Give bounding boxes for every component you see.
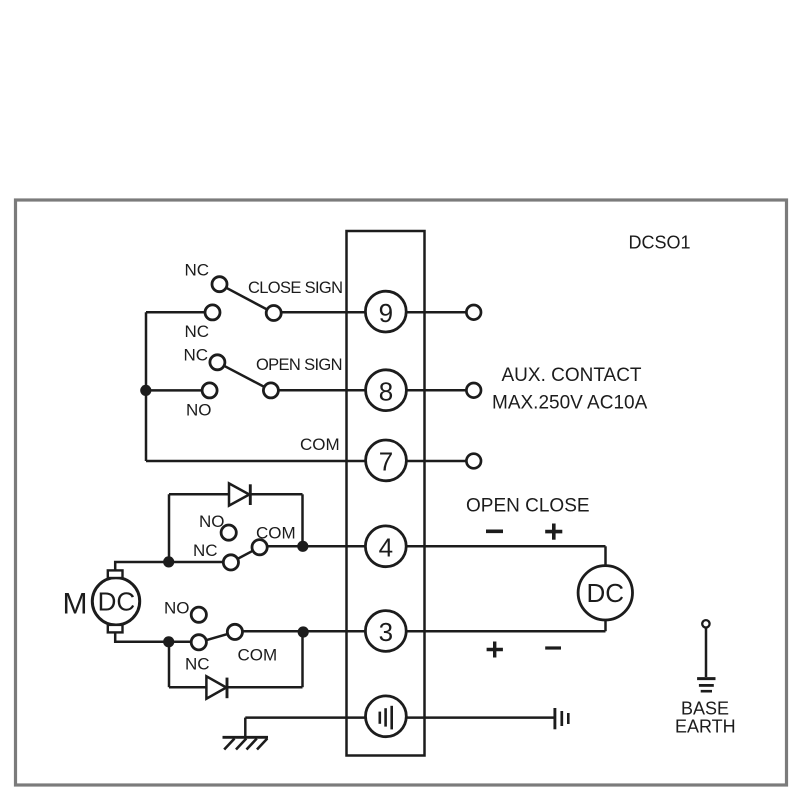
diode D1 (upper) [229,483,250,505]
contact: open-switch NO [202,383,217,398]
wire: lower switch to terminal 3 and DC source minus [235,630,606,633]
wire: DC source top lead [604,546,607,566]
wire: lower motor switch arm [199,632,235,642]
svg-text:MAX.250V AC10A: MAX.250V AC10A [492,393,648,414]
border frame [16,200,787,785]
contact: upper motor switch NO [221,525,236,540]
svg-text:AUX. CONTACT: AUX. CONTACT [502,365,642,386]
junction: lower branch / terminal 3 [298,626,309,637]
svg-text:4: 4 [379,532,393,562]
aux contact pin of 8 [466,383,481,398]
wire: COM to terminal 7 and aux contact [146,460,474,463]
wire: earth terminal lead [245,716,554,719]
junction: upper branch / terminal 4 [297,541,308,552]
junction: motor bottom / lower switch [163,636,174,647]
svg-text:CLOSE SIGN: CLOSE SIGN [248,279,342,297]
wire: motor bottom lead [115,632,199,641]
wire: upper diode branch left vertical [168,494,171,562]
wire: upper diode branch right vertical [301,494,304,546]
terminal 3 [365,611,406,652]
svg-text:NC: NC [185,655,210,674]
contact: lower motor switch NC [191,635,206,650]
wire: open-switch to terminal 8 and aux contact [271,389,474,392]
wire: lower diode branch bottom [169,686,303,689]
chassis ground [223,737,269,749]
svg-text:DCSO1: DCSO1 [629,233,691,253]
wire: lower diode branch left vertical [168,642,171,687]
svg-text:3: 3 [379,617,393,647]
polarity plus (close) [545,524,562,540]
wire: upper COM to terminal 4 and DC source plus [260,545,606,548]
svg-text:8: 8 [379,376,393,406]
svg-text:NO: NO [164,599,190,618]
contact: close-switch pivot [266,306,281,321]
svg-text:NC: NC [193,541,218,560]
aux contact pin of 9 [466,305,481,320]
contact: open-switch NC [210,355,225,370]
contact: upper motor switch COM [252,540,267,555]
svg-text:NC: NC [184,346,209,365]
terminal 7 [366,440,407,481]
svg-text:OPEN SIGN: OPEN SIGN [256,356,342,374]
wire: close-switch to terminal 9 and aux contact [274,311,474,314]
wire: DC source bottom lead [604,620,607,631]
wire: motor top lead [115,562,231,570]
svg-text:OPEN CLOSE: OPEN CLOSE [466,496,590,517]
polarity minus (lower) [545,646,561,649]
polarity plus (lower) [487,642,503,658]
svg-text:NC: NC [185,261,210,280]
terminal earth [366,696,407,737]
diode D2 (lower) [206,676,227,698]
contact: close-switch NC (left) [205,305,220,320]
svg-text:DC: DC [587,578,625,608]
contact: close-switch NC (upper) [212,277,227,292]
terminal 4 [365,526,406,567]
aux contact pin of 7 [466,454,481,469]
svg-text:EARTH: EARTH [675,717,736,737]
wire: close-switch NC stub [146,311,213,314]
svg-text:NO: NO [186,401,212,420]
svg-text:NC: NC [185,322,210,341]
wire: upper diode branch top [169,493,303,496]
DC source [578,566,632,620]
svg-text:DC: DC [98,587,136,617]
svg-text:9: 9 [379,298,393,328]
terminal 9 [365,291,406,332]
junction: motor top / upper switch [163,556,174,567]
svg-text:7: 7 [379,447,393,477]
junction: COM bus / NO stub [140,385,151,396]
polarity minus (open) [486,529,503,533]
svg-text:NO: NO [199,512,225,531]
wire: chassis ground drop [244,718,247,737]
earth bars at wire end [555,708,568,729]
wire: open sign switch arm [217,362,271,390]
svg-text:BASE: BASE [681,699,729,719]
wire: left COM vertical bus [145,312,148,461]
svg-text:COM: COM [256,524,296,543]
terminal block [347,231,425,756]
terminal 8 [366,370,407,411]
svg-text:COM: COM [300,435,340,454]
contact: upper motor switch NC [223,555,238,570]
wire: close sign switch arm [220,284,274,313]
wire: open-switch NO stub [146,389,210,392]
contact: open-switch pivot [263,383,278,398]
motor M [92,570,139,632]
base earth symbol [697,620,715,691]
wire: lower diode branch right vertical [301,631,304,687]
contact: lower motor switch NO [191,607,206,622]
svg-text:COM: COM [238,646,278,665]
svg-text:M: M [63,588,88,621]
wire: upper motor switch arm [231,547,260,562]
contact: lower motor switch COM [227,624,242,639]
